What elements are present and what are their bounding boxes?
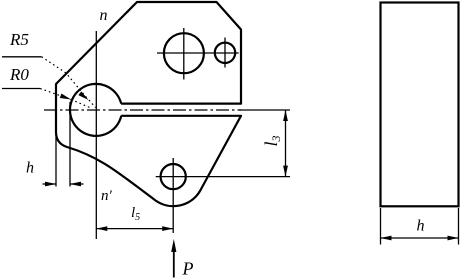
svg-text:P: P <box>182 259 194 279</box>
svg-text:n: n <box>100 7 108 24</box>
svg-text:n′: n′ <box>101 188 113 204</box>
svg-text:R5: R5 <box>9 30 29 49</box>
svg-text:h: h <box>26 160 34 177</box>
svg-text:R0: R0 <box>9 65 29 84</box>
svg-text:l5: l5 <box>131 205 140 223</box>
svg-text:l3: l3 <box>261 135 283 146</box>
svg-text:h: h <box>417 218 425 235</box>
